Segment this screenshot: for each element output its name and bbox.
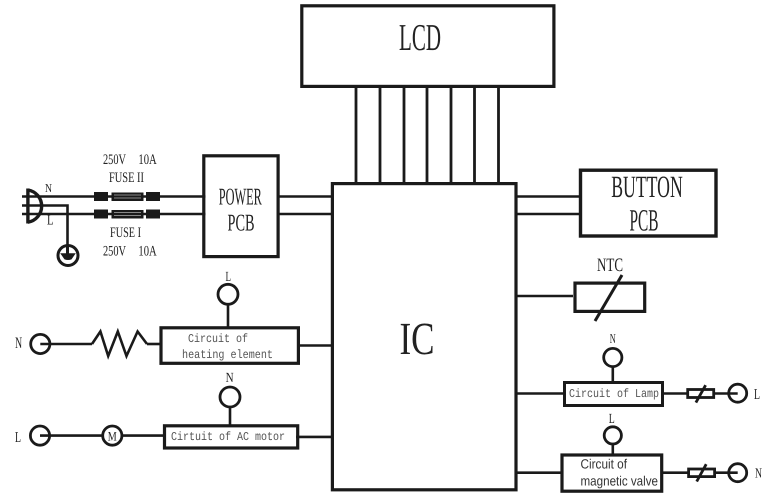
svg-text:FUSE II: FUSE II <box>109 170 144 186</box>
fuse (valve output) <box>689 464 715 481</box>
NTC thermistor <box>515 255 645 321</box>
circuit of magnetic valve block <box>562 455 662 491</box>
svg-text:250V: 250V <box>103 152 126 168</box>
IC U1 <box>332 184 516 490</box>
wire LCD ribbon line 5 <box>450 86 453 184</box>
wire N terminal to resistor <box>40 343 92 346</box>
wire LCD ribbon line 7 <box>497 86 500 184</box>
label 250V 10A (lower) <box>103 244 157 260</box>
terminal L (heating) <box>218 284 238 328</box>
svg-text:N: N <box>226 371 234 386</box>
fuse F2 (FUSE II) <box>94 192 160 201</box>
terminal L (valve) <box>604 427 621 455</box>
wire LCD ribbon line 1 <box>355 86 358 184</box>
svg-text:M: M <box>108 428 117 443</box>
wire N line plug to POWER PCB <box>22 195 206 198</box>
svg-text:magnetic valve: magnetic valve <box>581 474 659 489</box>
wire heating box to IC <box>297 344 333 347</box>
wire POWER PCB to IC upper <box>277 195 333 198</box>
svg-text:POWER: POWER <box>219 184 262 210</box>
svg-text:N: N <box>610 331 616 346</box>
resistor (heating element) <box>92 332 147 357</box>
svg-text:FUSE I: FUSE I <box>110 225 141 241</box>
svg-text:10A: 10A <box>138 152 157 168</box>
circuit of Lamp block <box>565 383 663 406</box>
wire earth prong <box>22 206 68 248</box>
wire valve box to fuse <box>662 471 689 474</box>
svg-text:N: N <box>15 335 22 352</box>
circuit of heating element block <box>161 328 298 364</box>
plug P1 <box>28 189 42 224</box>
svg-text:L: L <box>15 430 21 446</box>
terminal N (lamp) <box>604 348 622 382</box>
wire AC motor box to IC <box>296 436 334 439</box>
POWER PCB block <box>204 156 278 257</box>
BUTTON PCB block <box>581 169 717 237</box>
wire LCD ribbon line 2 <box>379 86 382 184</box>
wire lamp box to fuse <box>663 392 688 395</box>
svg-text:N: N <box>755 467 762 482</box>
svg-text:heating element: heating element <box>182 348 273 362</box>
terminal L (motor input) <box>30 426 49 445</box>
svg-text:L: L <box>226 270 232 285</box>
terminal N (heating input) <box>31 334 50 353</box>
wire motor to AC motor box <box>122 434 165 437</box>
svg-text:L: L <box>609 412 615 427</box>
circuit of AC motor block <box>165 426 298 448</box>
wire L line plug to POWER PCB <box>22 213 206 216</box>
wire L terminal to motor <box>40 434 103 437</box>
fuse F1 (FUSE I) <box>94 210 160 219</box>
svg-text:Circuit of: Circuit of <box>188 332 248 346</box>
LCD block <box>302 6 554 87</box>
wire IC to BUTTON PCB upper <box>515 195 581 198</box>
ground symbol <box>58 246 78 266</box>
wire fuse to L terminal (lamp) <box>715 392 738 395</box>
svg-text:L: L <box>754 387 760 403</box>
wire IC to BUTTON PCB lower <box>515 213 581 216</box>
svg-text:NTC: NTC <box>597 255 623 276</box>
svg-text:N: N <box>45 181 52 195</box>
wire resistor to heating box <box>147 343 161 346</box>
svg-text:Cirtuit of AC motor: Cirtuit of AC motor <box>171 430 285 444</box>
wire POWER PCB to IC lower <box>277 213 333 216</box>
wire LCD ribbon line 3 <box>403 86 406 184</box>
svg-text:10A: 10A <box>138 244 157 260</box>
wire IC to lamp box <box>515 392 565 395</box>
svg-text:BUTTON: BUTTON <box>611 169 683 204</box>
motor M <box>103 426 122 445</box>
svg-text:LCD: LCD <box>399 17 441 59</box>
svg-text:Circuit of: Circuit of <box>581 457 628 472</box>
wire LCD ribbon line 4 <box>426 86 429 184</box>
fuse (lamp output) <box>688 385 714 402</box>
wire fuse to N terminal (valve) <box>716 471 738 474</box>
svg-text:PCB: PCB <box>228 211 255 237</box>
terminal N (motor) <box>220 387 240 426</box>
terminal L (lamp output) <box>729 384 747 402</box>
terminal N (valve output) <box>729 464 747 482</box>
svg-text:250V: 250V <box>103 244 126 260</box>
wire LCD ribbon line 6 <box>473 86 476 184</box>
svg-text:PCB: PCB <box>630 202 659 237</box>
wire IC to magnetic valve box <box>515 471 562 474</box>
svg-text:Circuit of Lamp: Circuit of Lamp <box>569 387 659 401</box>
label 250V 10A (upper) <box>103 152 157 168</box>
svg-text:IC: IC <box>400 313 435 364</box>
